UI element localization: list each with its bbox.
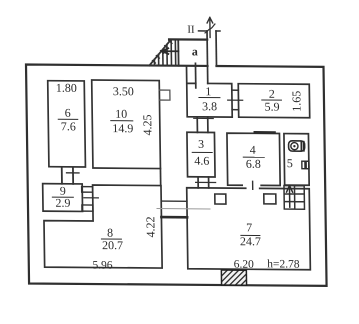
column in room 7 right [264, 194, 276, 204]
svg-text:3: 3 [198, 137, 204, 151]
outer wall boundary [26, 65, 327, 286]
label room 1 [199, 84, 220, 113]
room 8 outline [43, 185, 162, 268]
meter box room 5 [302, 161, 309, 169]
corridor threshold [161, 216, 187, 219]
room 9 door tick [84, 197, 99, 199]
flue tick [67, 172, 80, 174]
room 2 box [238, 84, 309, 118]
wall connector room10-room8 [159, 169, 161, 186]
svg-text:6.8: 6.8 [246, 157, 261, 171]
svg-text:10: 10 [115, 107, 127, 121]
svg-text:5.9: 5.9 [264, 100, 279, 114]
svg-text:3.50: 3.50 [113, 84, 134, 98]
room 9 door frame upper [82, 187, 93, 193]
room 4 box [227, 133, 280, 185]
flue room1-room3 [197, 117, 208, 133]
svg-text:14.9: 14.9 [112, 121, 133, 135]
svg-text:h=2.78: h=2.78 [267, 258, 300, 270]
exterior stair [149, 39, 179, 66]
lintel dash above room4 [255, 131, 275, 134]
door tick room4 bottom [252, 181, 254, 189]
svg-text:24.7: 24.7 [240, 234, 261, 248]
break squiggle [205, 24, 215, 33]
label room 8 [101, 226, 123, 253]
svg-text:3.8: 3.8 [202, 99, 217, 113]
svg-text:4: 4 [250, 143, 256, 157]
room 7 outline [187, 188, 311, 270]
room 3 box [187, 132, 215, 177]
door tick [196, 181, 216, 183]
svg-text:5: 5 [287, 156, 293, 170]
room 10 box [92, 80, 161, 169]
wall strip right [215, 31, 217, 66]
svg-text:6: 6 [65, 106, 71, 120]
label room 6 [56, 81, 78, 134]
column in room 7 left [215, 194, 226, 204]
label room 7 [240, 220, 261, 248]
svg-text:1.80: 1.80 [56, 81, 77, 95]
svg-text:20.7: 20.7 [102, 238, 123, 252]
svg-text:5.96: 5.96 [92, 260, 113, 272]
svg-text:1.65: 1.65 [289, 91, 303, 112]
door room1-room2 [232, 90, 239, 110]
corridor door leaf (faint) [157, 208, 210, 210]
label room 2 [262, 87, 282, 114]
room 6 box [48, 81, 86, 167]
svg-text:2.9: 2.9 [55, 196, 70, 210]
label room 9 [52, 184, 73, 210]
svg-text:6.20: 6.20 [234, 259, 255, 271]
door tick room1-room2 [228, 99, 243, 101]
svg-text:II: II [187, 24, 195, 36]
room 9 door frame lower [82, 205, 93, 211]
svg-text:4.25: 4.25 [140, 114, 154, 135]
strip top caps [199, 30, 221, 32]
svg-text:7: 7 [246, 220, 252, 234]
section arrow II [207, 17, 213, 37]
label room 4 [243, 143, 264, 171]
door ticks room 10 right [159, 90, 170, 100]
entrance hatch block [221, 270, 246, 285]
flue under room 6 [62, 167, 73, 184]
corridor door line 1 [161, 200, 187, 202]
entry jamb right / wall strip left [206, 31, 209, 84]
stair descent arrow [162, 48, 179, 54]
internal stair grid [284, 186, 305, 210]
stair steps [154, 39, 176, 65]
svg-text:1: 1 [205, 84, 211, 98]
label room 10 [110, 84, 134, 135]
svg-text:a: a [192, 44, 198, 58]
label room 3 [192, 137, 212, 168]
svg-text:4.22: 4.22 [143, 216, 157, 237]
svg-text:7.6: 7.6 [61, 119, 76, 133]
room 1 box [187, 66, 233, 117]
flue tick [194, 117, 214, 119]
vestibule a top wall [169, 38, 207, 41]
entry jamb left [194, 63, 196, 88]
room 5 box [284, 134, 309, 186]
door room3-room7 [198, 177, 209, 188]
svg-text:4.6: 4.6 [194, 154, 209, 168]
stair hatch marks [152, 41, 172, 63]
water heater in room 5 [289, 141, 305, 151]
internal stair arrow [286, 186, 292, 208]
room 9 box [43, 184, 83, 212]
